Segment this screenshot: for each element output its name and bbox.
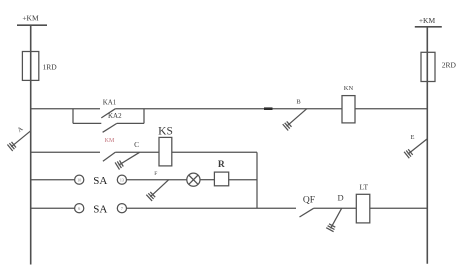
contact KM xyxy=(103,152,115,161)
svg-text:LT: LT xyxy=(360,182,369,191)
wire row2 left segment xyxy=(31,151,100,153)
wire row1 left segment xyxy=(31,108,100,110)
coil KS xyxy=(158,126,173,166)
test link C xyxy=(115,152,140,169)
svg-text:C: C xyxy=(134,140,139,149)
switch SA row3 terminal 13 xyxy=(117,175,126,184)
test link E xyxy=(404,139,427,159)
svg-text:A: A xyxy=(16,125,24,134)
fuse 2RD xyxy=(421,52,457,81)
svg-text:D: D xyxy=(338,192,344,202)
svg-text:SA: SA xyxy=(93,203,107,215)
svg-text:R: R xyxy=(218,160,225,170)
wire row3 segment lamp to R xyxy=(200,179,214,181)
wire row4 left segment xyxy=(31,207,75,209)
wire row4 segment to QF xyxy=(127,207,297,209)
svg-text:+KM: +KM xyxy=(22,14,39,23)
wire vertical junction column xyxy=(256,152,258,208)
contact KA1 xyxy=(101,99,116,118)
coil KN xyxy=(342,85,355,123)
svg-text:SA: SA xyxy=(93,175,107,187)
resistor R xyxy=(214,160,228,186)
switch SA row3 terminal 10 xyxy=(75,175,84,184)
lamp HL xyxy=(187,173,200,186)
switch SA row4 terminal 6 xyxy=(75,204,84,213)
svg-text:F: F xyxy=(154,171,157,177)
wire row4 segment QF to LT xyxy=(314,207,357,209)
fuse 1RD xyxy=(22,52,57,81)
test link A xyxy=(7,131,30,151)
svg-text:10: 10 xyxy=(77,177,81,182)
junction tick on row1 xyxy=(264,107,273,110)
test link B xyxy=(283,109,307,131)
wire row3 right segment xyxy=(229,179,257,181)
svg-text:13: 13 xyxy=(120,177,124,182)
node +KM left terminal xyxy=(17,14,47,26)
wire right bus xyxy=(426,27,428,264)
svg-text:B: B xyxy=(296,98,301,105)
contact QF xyxy=(300,195,316,217)
svg-text:2RD: 2RD xyxy=(442,61,457,70)
wire row2 right segment xyxy=(172,151,257,153)
wire row1 right segment xyxy=(355,108,427,110)
test link D xyxy=(326,208,342,232)
svg-text:7: 7 xyxy=(121,206,123,211)
svg-text:QF: QF xyxy=(303,195,315,205)
wire row2 middle segment xyxy=(115,151,159,153)
svg-text:KN: KN xyxy=(344,85,354,92)
test link F xyxy=(146,180,168,201)
svg-text:E: E xyxy=(411,134,415,141)
switch SA row4 terminal 7 xyxy=(117,204,126,213)
svg-text:6: 6 xyxy=(78,206,80,211)
wire row1 middle segment xyxy=(115,108,342,110)
svg-text:1RD: 1RD xyxy=(43,63,58,72)
node +KM right terminal xyxy=(415,16,442,27)
svg-text:KS: KS xyxy=(158,126,173,138)
svg-text:KA1: KA1 xyxy=(103,99,117,107)
wire left bus xyxy=(30,25,32,264)
svg-text:+KM: +KM xyxy=(419,16,436,25)
wire row4 right segment xyxy=(370,207,428,209)
wire row3 segment to lamp xyxy=(127,179,187,181)
wire row3 left segment xyxy=(31,179,75,181)
svg-text:KM: KM xyxy=(105,138,115,144)
coil LT xyxy=(356,182,370,223)
svg-text:KA2: KA2 xyxy=(108,112,122,120)
contact KA2 xyxy=(103,112,122,132)
wire KA2 parallel branch xyxy=(73,109,144,124)
